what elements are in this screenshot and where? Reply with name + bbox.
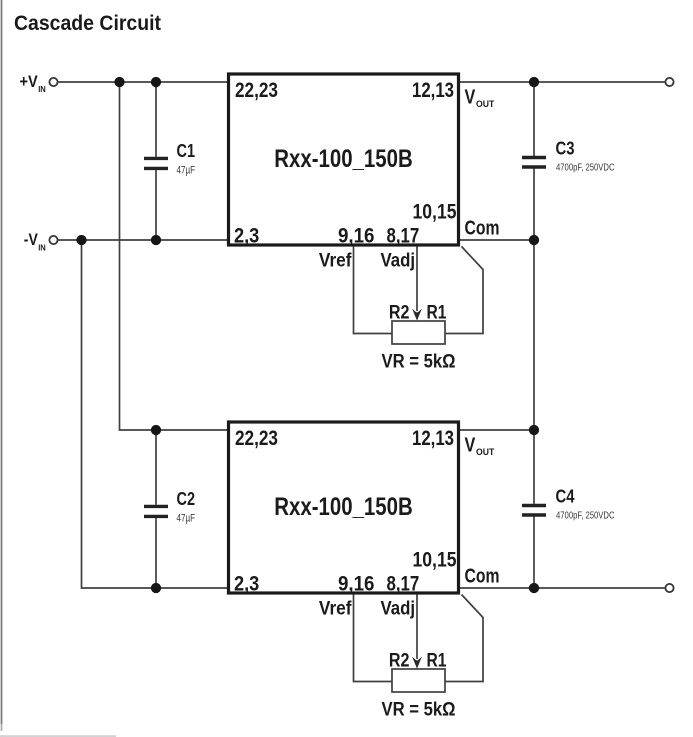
svg-text:Rxx-100_150B: Rxx-100_150B [274,145,413,173]
svg-text:VR = 5kΩ: VR = 5kΩ [382,352,456,373]
node -Vin label [24,230,46,252]
svg-text:10,15: 10,15 [413,548,457,572]
svg-text:Vref: Vref [319,599,352,620]
svg-text:Vadj: Vadj [381,251,416,272]
wire pot right lead to U1 Com [445,247,483,334]
svg-text:VR = 5kΩ: VR = 5kΩ [382,700,456,721]
wire pot right lead to U2 Com [445,595,483,682]
pot wiper arrowhead [412,309,422,321]
capacitor C3 plates [522,158,546,168]
svg-text:10,15: 10,15 [413,200,457,224]
svg-text:R1: R1 [427,303,447,324]
junction node (534,240) [529,235,539,245]
U1 Vout pin name [465,87,495,110]
wire U2 Com to -Vout terminal [459,587,666,589]
wire U1 Vout to +Vout terminal [459,81,666,83]
svg-text:OUT: OUT [476,99,494,110]
svg-text:8,17: 8,17 [387,571,420,595]
junction node (119.5,82) [114,77,124,87]
svg-text:R1: R1 [427,651,447,672]
svg-text:C3: C3 [556,139,575,159]
svg-text:47µF: 47µF [177,165,196,177]
wire -Vin to U1 pin 2,3 [58,239,229,241]
potentiometer VR body (R2/R1) [392,321,445,344]
terminal +Vout (top right) [665,78,673,86]
wire right bus C4 bottom to Com rail [533,517,535,589]
wire -Vin bus down to U2 pin 2,3 [82,240,229,588]
U2 Vout pin name [465,435,495,458]
capacitor C2 plates [144,506,168,516]
svg-text:IN: IN [38,85,46,94]
wire U1 Com to right bus [459,239,534,241]
junction node (156,240) [151,235,161,245]
wire U1 Vref to pot R1a left lead [354,247,393,334]
junction node (534,82) [529,77,539,87]
potentiometer VR body (R2/R1) [392,669,445,692]
wire U2 Vout to right bus [459,429,534,431]
node +Vin label [20,72,47,94]
svg-text:Cascade Circuit: Cascade Circuit [14,11,161,35]
svg-text:4700pF, 250VDC: 4700pF, 250VDC [556,509,615,521]
svg-text:R2: R2 [389,651,410,672]
svg-text:C1: C1 [177,141,196,161]
junction node (156,588) [151,583,161,593]
svg-text:2,3: 2,3 [234,223,259,247]
terminal +Vin [49,78,57,86]
terminal -Vin [49,236,57,244]
svg-text:9,16: 9,16 [338,571,375,595]
junction node (156,82) [151,77,161,87]
wire U2 Vadj to pot wiper [416,595,418,660]
svg-text:12,13: 12,13 [412,426,454,450]
junction node (156,430) [151,425,161,435]
capacitor C1 plates [144,158,168,168]
svg-text:+V: +V [20,72,39,91]
svg-text:47µF: 47µF [177,513,196,525]
junction node (534,430) [529,425,539,435]
svg-text:Vadj: Vadj [381,599,416,620]
junction node (534,588) [529,583,539,593]
svg-text:22,23: 22,23 [235,78,278,102]
svg-text:C4: C4 [556,487,575,507]
capacitor C4 plates [522,506,546,516]
svg-text:Com: Com [465,565,500,587]
junction node (81.5,240) [76,235,86,245]
svg-text:-V: -V [24,230,39,249]
pot wiper arrowhead [412,657,422,669]
svg-text:8,17: 8,17 [387,223,420,247]
svg-text:R2: R2 [389,303,410,324]
converter module U2 Rxx-100_150B [229,422,459,593]
svg-text:IN: IN [38,243,46,252]
wire C1 top lead [155,82,157,157]
wire +Vin to U1 pin 22,23 [58,81,229,83]
wire right bus C3 bottom to U2 Vout [533,169,535,504]
svg-text:C2: C2 [177,489,196,509]
wire C2 bottom lead [155,518,157,588]
svg-text:12,13: 12,13 [412,78,454,102]
svg-text:V: V [465,435,476,457]
wire C1 bottom lead [155,170,157,240]
svg-text:22,23: 22,23 [235,426,278,450]
converter module U1 Rxx-100_150B [229,74,459,245]
wire C2 top lead [155,430,157,505]
wire U2 Vref to pot R2a left lead [354,595,393,682]
svg-text:Vref: Vref [319,251,352,272]
wire right bus top to C3 [533,82,535,156]
svg-text:2,3: 2,3 [234,571,259,595]
terminal -Vout (bottom right) [665,584,673,592]
wire U1 Vadj to pot wiper [416,247,418,312]
svg-text:V: V [465,87,476,109]
svg-text:Rxx-100_150B: Rxx-100_150B [274,493,413,521]
svg-text:Com: Com [465,217,500,239]
svg-text:4700pF, 250VDC: 4700pF, 250VDC [556,161,615,173]
svg-text:9,16: 9,16 [338,223,375,247]
wire left bus +Vin down to U2 pin 22,23 [120,82,229,430]
svg-text:OUT: OUT [476,447,494,458]
